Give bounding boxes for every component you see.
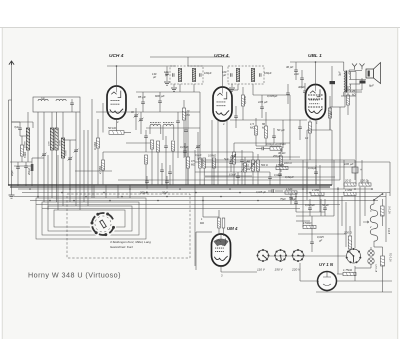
- resistor 20 Ohm: [344, 183, 356, 186]
- svg-text:µF: µF: [165, 73, 168, 77]
- resistor 100 Ohm: [280, 156, 283, 165]
- band coil 3: [55, 128, 58, 150]
- capacitor 0.1uF: [164, 145, 168, 147]
- svg-text:20 Ω: 20 Ω: [344, 179, 352, 183]
- wire right horiz: [296, 215, 334, 217]
- capacitor 202uF: [24, 165, 28, 167]
- voltage selector 110 V: [258, 250, 269, 261]
- svg-text:Horny W 348 U (Virtuoso): Horny W 348 U (Virtuoso): [28, 271, 121, 280]
- svg-text:7µF: 7µF: [14, 125, 19, 129]
- cap right a: [308, 207, 312, 209]
- wire right verticals: [339, 107, 341, 180]
- aerial filter box: [33, 97, 80, 112]
- svg-text:+: +: [360, 168, 362, 172]
- output transformer secondary b: [349, 84, 350, 92]
- resistor 3000: [172, 141, 175, 151]
- svg-text:220 V: 220 V: [291, 268, 301, 272]
- svg-text:40µF: 40µF: [298, 85, 305, 89]
- svg-text:6µF: 6µF: [369, 84, 374, 88]
- svg-text:2,7MΩ: 2,7MΩ: [98, 166, 102, 175]
- svg-text:0,01µF: 0,01µF: [308, 166, 317, 170]
- svg-text:1 MΩ: 1 MΩ: [312, 188, 320, 192]
- resistor 30 kOhm network: [270, 147, 282, 150]
- wire input links: [63, 139, 76, 141]
- svg-text:UM 4: UM 4: [227, 226, 238, 231]
- fuse upper: [381, 206, 385, 216]
- svg-text:20: 20: [329, 112, 333, 116]
- tube U4 UM4 magic eye: [212, 234, 231, 266]
- output transformer secondary a: [349, 72, 350, 80]
- resistor 6000: [145, 155, 148, 164]
- voltage selector 150 V: [275, 250, 286, 261]
- heater rotary switch: [347, 249, 361, 263]
- svg-text:100µF: 100µF: [204, 71, 212, 75]
- svg-text:TO 0,1A: TO 0,1A: [389, 253, 392, 262]
- speaker: [366, 69, 374, 78]
- svg-text:450µF: 450µF: [273, 155, 281, 158]
- aerial loop coil b: [56, 99, 66, 101]
- ground (antenna): [9, 195, 15, 198]
- svg-text:UCH 4: UCH 4: [109, 53, 124, 59]
- capacitor um4: [222, 218, 225, 228]
- tube U2 UCH4: [213, 87, 232, 121]
- voltage selector 220 V: [293, 250, 304, 261]
- svg-text:0,025: 0,025: [317, 235, 324, 239]
- antenna: [9, 61, 14, 65]
- oscillator coil a: [150, 124, 161, 126]
- page top edge: [0, 27, 400, 29]
- resistor 1 MOhm mid: [285, 191, 297, 194]
- svg-text:MΩ: MΩ: [191, 163, 195, 167]
- tube U5 UY1N: [318, 272, 337, 291]
- svg-text:100 Ω: 100 Ω: [360, 179, 369, 183]
- ballast tap arrow: [363, 221, 369, 223]
- wire verticals mid2: [187, 112, 189, 185]
- junction dots on bus: [21, 184, 23, 186]
- wire tube2 top: [222, 66, 224, 87]
- tube3 grid shading: [308, 95, 323, 107]
- aerial loop coil a: [38, 99, 48, 101]
- speaker plug a: [352, 64, 357, 70]
- svg-text:Gezeichnet: Kurz: Gezeichnet: Kurz: [110, 245, 134, 249]
- bandswitch harness loop 4: [54, 210, 125, 227]
- svg-text:22µF: 22µF: [11, 170, 14, 177]
- wire earth lead: [8, 100, 10, 185]
- resistor 500 Ohm psu: [257, 160, 260, 171]
- svg-text:δ Ω 8: δ Ω 8: [387, 228, 390, 235]
- resistor 1 MOhm a: [311, 192, 324, 195]
- svg-text:UY 1 N: UY 1 N: [319, 262, 334, 267]
- tube U1 UCH4: [107, 86, 126, 119]
- svg-text:µF: µF: [223, 73, 226, 77]
- resistor 1700 a: [276, 166, 288, 169]
- capacitor osc3: [168, 171, 172, 173]
- bandswitch harness loop 3: [48, 206, 132, 231]
- ground IFT1: [173, 84, 175, 87]
- svg-text:kΩ: kΩ: [251, 163, 254, 166]
- svg-text:UBL 1: UBL 1: [308, 53, 322, 59]
- bus line 2: [18, 188, 372, 190]
- svg-text:µF: µF: [153, 75, 156, 79]
- svg-text:30 pF: 30 pF: [286, 65, 293, 69]
- resistor 0.1 MOhm (tube2): [241, 95, 244, 106]
- resistor 0.5 MOhm: [186, 157, 189, 168]
- volume pot: [232, 152, 235, 164]
- bus line 5: [30, 200, 378, 202]
- band switch S1: [90, 211, 117, 238]
- page left edge: [1, 28, 3, 339]
- speaker wires: [345, 89, 362, 91]
- capacitor 300pf: [145, 180, 149, 182]
- IFT2 cap a: [230, 73, 232, 77]
- resistor below tube3: [308, 122, 311, 133]
- trimmer cap input 1: [42, 153, 46, 155]
- svg-text:0,1MΩ: 0,1MΩ: [93, 142, 97, 150]
- osc trimmer 3: [196, 145, 200, 147]
- wire psu verticals: [302, 160, 304, 216]
- resistor 0.1M psu pair: [199, 158, 202, 168]
- wire right vert2: [302, 216, 304, 227]
- capacitor osc: [176, 120, 180, 122]
- oscillator coil b: [163, 124, 174, 126]
- svg-text:µF: µF: [319, 239, 323, 243]
- wire risers left (band box to harness): [37, 112, 39, 198]
- speaker plug b: [360, 64, 365, 70]
- svg-text:0,15µF: 0,15µF: [180, 145, 189, 149]
- wire plugs: [349, 69, 355, 71]
- bus line 7: [42, 208, 300, 210]
- resistor 1.75 kOhm: [343, 272, 356, 275]
- svg-text:1700Ω: 1700Ω: [303, 221, 312, 225]
- svg-text:1Ω: 1Ω: [305, 137, 308, 140]
- svg-text:0,02µF: 0,02µF: [274, 174, 282, 177]
- resistor 1700 b: [303, 225, 316, 228]
- page right edge: [397, 28, 399, 339]
- padder cap: [144, 135, 148, 137]
- svg-text:85 µF: 85 µF: [138, 95, 146, 99]
- bandswitch harness loop 2: [42, 202, 139, 235]
- heater wires: [354, 196, 356, 248]
- wire bottom left link: [268, 255, 346, 257]
- svg-text:50 kΩ: 50 kΩ: [108, 126, 117, 130]
- wires psu row: [200, 159, 355, 161]
- osc trimmer 2: [139, 118, 143, 120]
- wire tube1 top: [116, 66, 118, 86]
- wire horizontals mid: [96, 111, 200, 113]
- resistor 100 Ohm h: [359, 183, 371, 186]
- tube U3 UBL1: [306, 85, 326, 120]
- resistor 20/8 osc: [182, 108, 185, 120]
- resistor 2.7 MOhm: [101, 160, 104, 170]
- IFT2 winding b: [251, 69, 254, 82]
- svg-text:100 µF: 100 µF: [258, 100, 268, 104]
- bus second thick: [10, 186, 330, 188]
- capacitor 22uF: [16, 166, 20, 168]
- svg-text:202µF: 202µF: [28, 167, 31, 176]
- osc trimmer 1: [134, 114, 138, 116]
- svg-text:5µF: 5µF: [231, 154, 236, 158]
- svg-text:1700Ω: 1700Ω: [276, 163, 284, 167]
- IFT2 wires: [237, 84, 239, 90]
- svg-text:81kΩ: 81kΩ: [23, 152, 27, 158]
- UY1N wires: [337, 273, 343, 275]
- main bus (chassis): [8, 184, 332, 186]
- svg-text:UCH 4: UCH 4: [214, 53, 229, 59]
- IF transformer 2 box: [228, 66, 264, 84]
- svg-text:5µF: 5µF: [224, 157, 229, 161]
- dial lamp 2: [368, 258, 374, 264]
- resistor 81kOhm antenna: [20, 145, 23, 156]
- wire mid horizontals 2: [118, 179, 340, 181]
- svg-text:3 Stellungen Kurz, Mittel, Lan: 3 Stellungen Kurz, Mittel, Lang: [110, 240, 151, 244]
- svg-text:0,1µF: 0,1µF: [195, 154, 202, 157]
- resistor 10 kOhm pot: [251, 160, 254, 171]
- wire risers to switch: [93, 185, 95, 198]
- svg-text:50 µF: 50 µF: [277, 128, 285, 132]
- dial lamp 1: [368, 250, 374, 256]
- IFT1 winding a: [178, 69, 181, 82]
- svg-text:+: +: [317, 280, 319, 284]
- trimmer cap input 2: [68, 157, 72, 159]
- band coil 2: [50, 128, 53, 150]
- bus line 6: [36, 204, 340, 206]
- svg-text:0,1MΩ: 0,1MΩ: [243, 96, 247, 104]
- resistor 1000: [157, 141, 160, 152]
- IFT1 cap a: [172, 73, 174, 77]
- svg-text:30µF: 30µF: [162, 191, 168, 195]
- IFT1 cap b: [199, 73, 201, 77]
- capacitor below tube3: [298, 126, 302, 128]
- svg-text:U 0,1A: U 0,1A: [388, 206, 391, 214]
- ground IFT2: [231, 84, 233, 87]
- bandswitch dashed box: [67, 194, 190, 258]
- svg-text:0,005µF: 0,005µF: [267, 94, 278, 98]
- IF transformer 1 box: [170, 66, 203, 84]
- resistor right of tube3: [328, 108, 331, 118]
- wire left links: [10, 161, 32, 163]
- resistor 180: [151, 140, 154, 149]
- svg-text:110 V: 110 V: [257, 268, 266, 272]
- mains switch: [374, 194, 382, 200]
- wire verticals mid: [194, 150, 196, 266]
- svg-text:100µF: 100µF: [264, 71, 272, 75]
- UM4 wires: [218, 228, 220, 235]
- resistor 1 MOhm b: [344, 192, 356, 195]
- band coil 1: [26, 128, 29, 150]
- fuse box lower: [381, 256, 385, 266]
- capacitor 7pF: [18, 127, 22, 129]
- output transformer core: [346, 71, 348, 93]
- svg-text:5µF: 5µF: [338, 71, 342, 76]
- svg-text:300000: 300000: [25, 140, 27, 148]
- svg-text:100 µF: 100 µF: [344, 162, 354, 166]
- svg-text:1nF: 1nF: [294, 72, 299, 76]
- svg-text:100 Ω: 100 Ω: [284, 161, 292, 165]
- wire tube3 top: [315, 62, 317, 85]
- IFT1 winding b: [192, 69, 195, 82]
- electrolytic left: [31, 164, 34, 171]
- svg-text:75µF: 75µF: [290, 197, 297, 201]
- capacitor 6uF (electrolytic): [360, 81, 366, 84]
- capacitor 30pf: [165, 180, 169, 182]
- capacitor small a: [184, 129, 188, 131]
- svg-text:0,5: 0,5: [191, 159, 195, 163]
- resistor 50 kOhm: [109, 131, 124, 135]
- aerial box cap: [70, 102, 74, 104]
- IFT2 winding a: [236, 69, 239, 82]
- svg-text:500 Ω: 500 Ω: [261, 164, 268, 167]
- svg-text:MΩ: MΩ: [200, 221, 204, 225]
- svg-text:1 MΩ: 1 MΩ: [345, 188, 353, 192]
- trimmer cap input 3: [74, 149, 78, 151]
- ballast resistor (meander): [370, 204, 378, 241]
- cap 0.01 block: [261, 147, 263, 151]
- IFT1 wires: [179, 84, 181, 92]
- capacitor 0.02uF t2: [234, 115, 238, 117]
- svg-text:0,01µF+0,04MΩ: 0,01µF+0,04MΩ: [266, 142, 286, 146]
- svg-text:50 µF: 50 µF: [322, 203, 329, 207]
- wire tube3 cathode: [315, 119, 317, 185]
- capacitor osc2: [160, 169, 164, 171]
- band coil 4: [61, 138, 64, 158]
- IFT2 cap b: [259, 73, 261, 77]
- cap right b: [323, 207, 327, 209]
- resistor 0.5 MOhm psu: [213, 158, 216, 168]
- bus line 4: [14, 196, 386, 198]
- svg-text:70000: 70000: [66, 150, 68, 156]
- resistor um4 grid: [218, 218, 221, 228]
- output transformer primary: [344, 71, 345, 92]
- svg-text:150 V: 150 V: [275, 268, 284, 272]
- bandswitch harness loop 1: [36, 198, 146, 239]
- svg-text:1,75kΩ: 1,75kΩ: [343, 268, 353, 272]
- resistor 200 Ohm: [348, 236, 351, 249]
- svg-text:300µF: 300µF: [140, 191, 148, 195]
- resistor 0.1 MOhm left: [96, 138, 99, 148]
- bus line 3: [22, 192, 390, 194]
- svg-text:L2x0,1A: L2x0,1A: [375, 264, 378, 273]
